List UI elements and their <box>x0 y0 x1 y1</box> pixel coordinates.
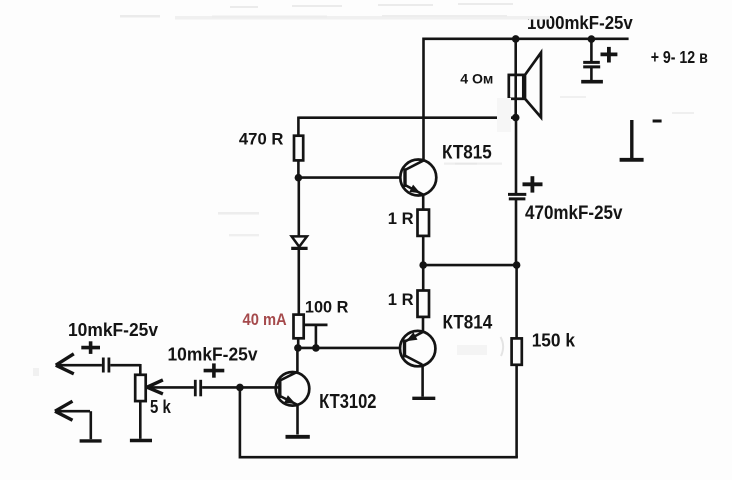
wire KT3102 collector <box>296 348 299 372</box>
svg-text:470mkF-25v: 470mkF-25v <box>525 203 623 224</box>
capacitor C 1000mkF plates <box>583 61 600 64</box>
capacitor C 10mkF input <box>102 358 105 373</box>
node junction top speaker <box>512 35 520 43</box>
node 1R junction <box>419 261 427 269</box>
node cap junction <box>513 261 521 269</box>
diode VD1 <box>292 236 307 246</box>
resistor R1 470R <box>297 117 300 136</box>
node tap <box>312 344 320 352</box>
wire top positive rail <box>424 37 629 40</box>
battery minus terminal <box>630 120 633 158</box>
svg-text:40 mA: 40 mA <box>243 310 287 329</box>
resistor R4 1R top <box>418 210 430 236</box>
resistor R6 150k <box>515 265 518 338</box>
capacitor C 470mkF lead <box>515 118 518 195</box>
svg-text:4 Ом: 4 Ом <box>460 71 493 87</box>
artifact smudge top <box>120 3 550 20</box>
transistor Q2 KT814 <box>400 331 435 366</box>
plus sign 1000mkF <box>601 53 618 57</box>
svg-text:1 R: 1 R <box>388 209 414 228</box>
svg-text:100 R: 100 R <box>305 297 349 316</box>
capacitor C 10mkF coupling <box>194 380 197 397</box>
wire KT815 emitter <box>422 195 425 210</box>
node 100R bottom <box>294 344 302 352</box>
artifact smudge misc <box>33 96 694 376</box>
wire feedback bottom <box>240 456 518 459</box>
ground KT3102 <box>286 435 310 439</box>
ground input 2 <box>80 439 102 442</box>
wire speaker branch top <box>514 39 517 75</box>
svg-text:КТ814: КТ814 <box>443 313 493 334</box>
svg-text:КТ815: КТ815 <box>442 142 492 164</box>
svg-text:КТ3102: КТ3102 <box>319 390 376 413</box>
svg-text:10mkF-25v: 10mkF-25v <box>168 345 258 365</box>
svg-text:5 k: 5 k <box>150 397 172 417</box>
wire KT814 collector <box>421 365 424 397</box>
node KT3102 base <box>236 384 244 392</box>
svg-text:470 R: 470 R <box>239 131 284 149</box>
transistor Q1 KT815 <box>400 160 436 196</box>
wire KT814 base <box>298 347 405 350</box>
wire through speaker <box>514 75 517 118</box>
potentiometer R2 5k <box>139 364 142 375</box>
ground KT814 <box>412 397 435 400</box>
resistor R5 1R bottom <box>422 265 425 290</box>
capacitor C 1000mkF lead <box>590 39 593 62</box>
svg-text:1000mkF-25v: 1000mkF-25v <box>527 13 633 33</box>
input arrow 1 <box>56 354 74 365</box>
tap link T <box>304 323 328 326</box>
capacitor C 470mkF plates <box>508 193 526 196</box>
wire KT3102 emitter <box>296 405 299 435</box>
svg-text:150 k: 150 k <box>532 331 576 351</box>
wire KT815 base <box>298 176 405 179</box>
svg-text:+ 9- 12 в: + 9- 12 в <box>651 47 708 67</box>
input arrow 2 <box>55 401 73 411</box>
transistor Q3 KT3102 <box>276 372 310 406</box>
speaker LS1 4 Om <box>509 53 541 118</box>
svg-text:1 R: 1 R <box>388 290 414 309</box>
resistor R3 100R <box>294 315 304 339</box>
wire KT815 collector riser <box>422 38 425 161</box>
plus sign 470mkF <box>523 182 543 186</box>
plus sign input cap <box>81 346 100 350</box>
node KT815 base <box>295 174 303 182</box>
wire mid junction <box>423 264 516 267</box>
node junction 1000mkF <box>588 35 596 43</box>
wiper arrow <box>147 380 163 387</box>
node junction speaker bottom <box>512 114 520 122</box>
diode VD1 lead <box>297 178 300 237</box>
ground potentiometer <box>130 439 152 442</box>
svg-text:10mkF-25v: 10mkF-25v <box>68 320 158 340</box>
ground 1000mkF <box>581 80 603 84</box>
plus sign coupling cap <box>204 369 225 373</box>
wire 470R feed to speaker node <box>298 116 515 119</box>
